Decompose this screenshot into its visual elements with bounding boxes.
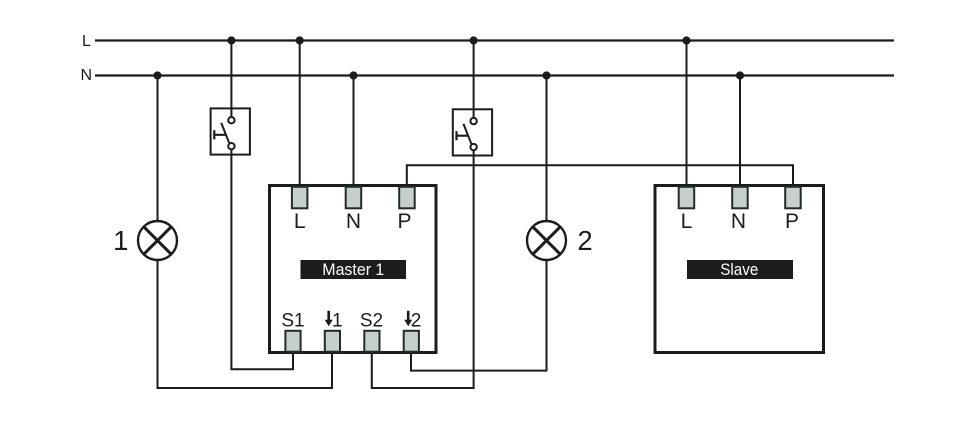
svg-text:L: L <box>82 33 91 50</box>
svg-text:1: 1 <box>332 310 343 331</box>
svg-text:1: 1 <box>113 225 128 256</box>
svg-text:S2: S2 <box>360 310 383 331</box>
svg-text:N: N <box>81 67 93 84</box>
svg-text:Master 1: Master 1 <box>322 260 384 279</box>
svg-text:P: P <box>397 210 411 233</box>
svg-text:N: N <box>731 210 746 233</box>
svg-text:P: P <box>785 210 799 233</box>
svg-text:2: 2 <box>411 310 422 331</box>
svg-text:L: L <box>681 210 693 233</box>
svg-text:2: 2 <box>577 225 592 256</box>
svg-text:N: N <box>346 210 361 233</box>
svg-text:Slave: Slave <box>720 260 758 279</box>
svg-text:S1: S1 <box>281 310 304 331</box>
svg-text:L: L <box>294 210 306 233</box>
